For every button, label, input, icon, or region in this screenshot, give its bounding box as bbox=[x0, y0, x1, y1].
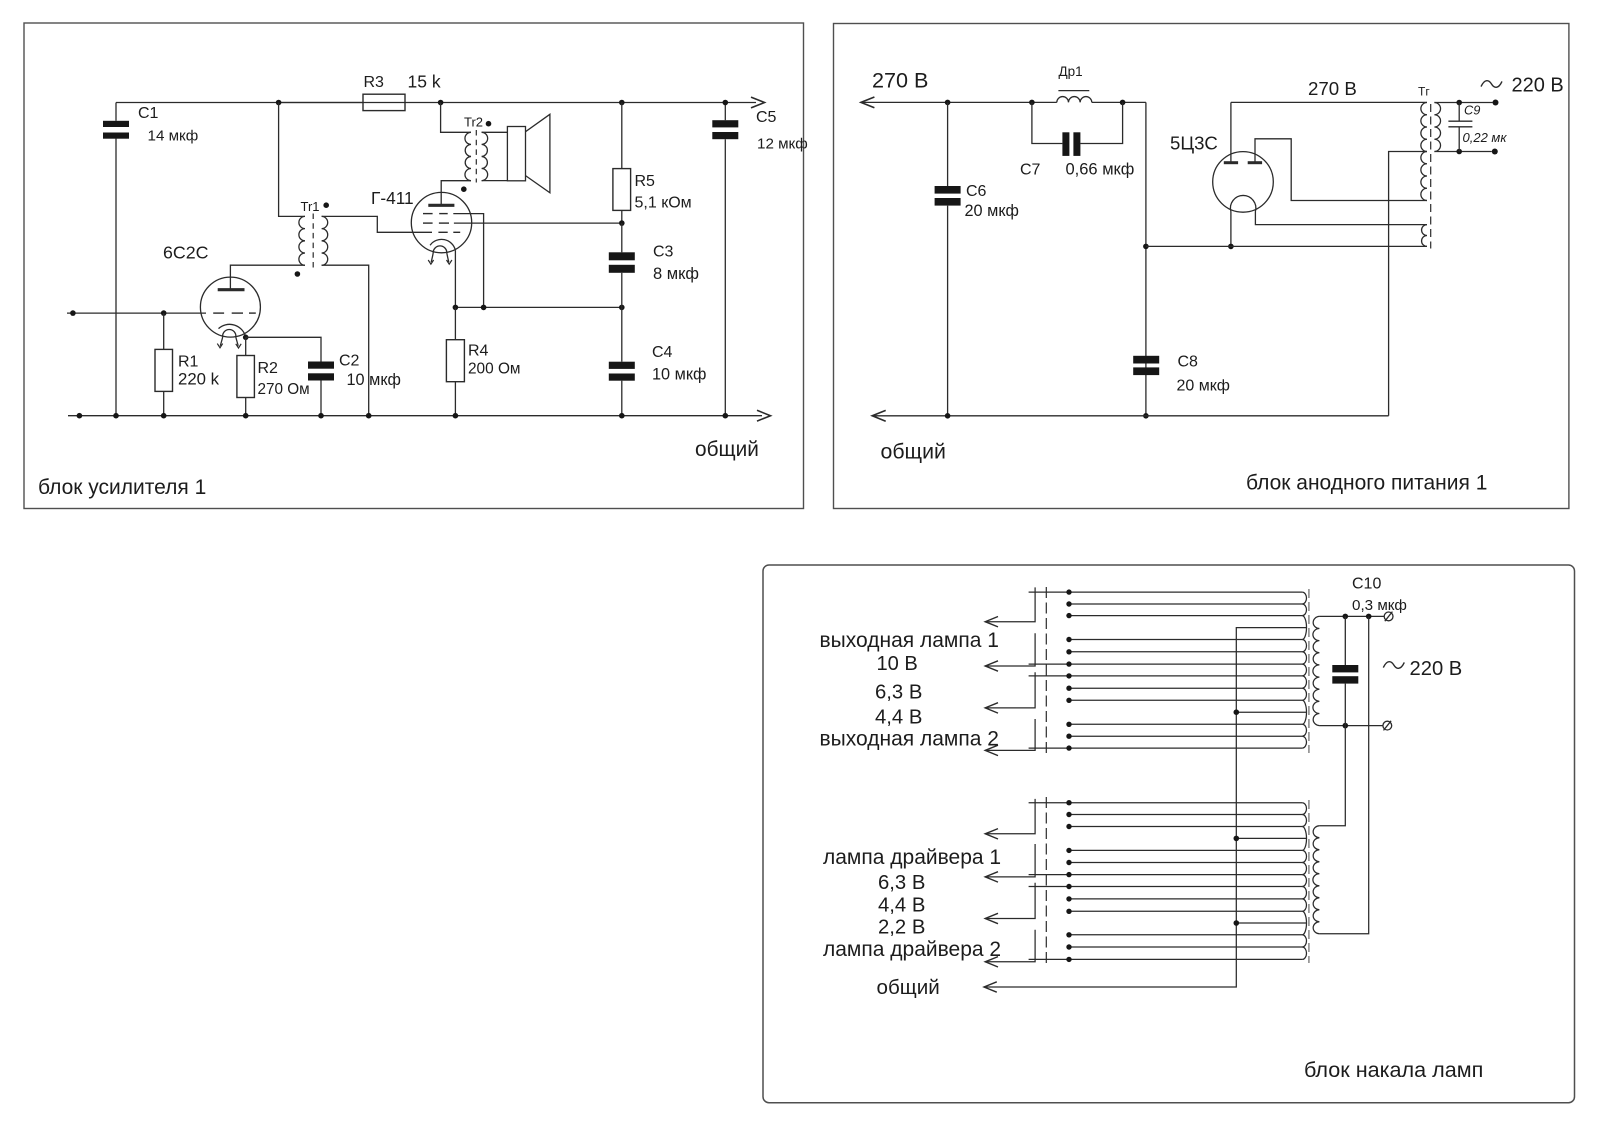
svg-text:C5: C5 bbox=[756, 109, 777, 126]
svg-text:220 В: 220 В bbox=[1410, 658, 1463, 680]
svg-text:200 Ом: 200 Ом bbox=[468, 361, 521, 378]
svg-text:R5: R5 bbox=[635, 173, 656, 190]
svg-text:4,4 В: 4,4 В bbox=[875, 707, 922, 729]
svg-text:C3: C3 bbox=[653, 244, 674, 261]
svg-text:10 В: 10 В bbox=[877, 653, 918, 675]
svg-text:C6: C6 bbox=[966, 183, 987, 200]
svg-text:C1: C1 bbox=[138, 105, 159, 122]
svg-text:14 мкф: 14 мкф bbox=[148, 128, 199, 145]
svg-text:2,2 В: 2,2 В bbox=[878, 917, 925, 939]
svg-text:Г-411: Г-411 bbox=[371, 188, 414, 208]
svg-text:270 В: 270 В bbox=[872, 68, 928, 93]
svg-text:общий: общий bbox=[877, 976, 940, 999]
svg-text:C9: C9 bbox=[1464, 103, 1480, 118]
svg-text:C10: C10 bbox=[1352, 576, 1381, 593]
svg-text:C4: C4 bbox=[652, 344, 673, 361]
svg-text:20 мкф: 20 мкф bbox=[1177, 378, 1230, 395]
svg-text:блок усилителя 1: блок усилителя 1 bbox=[38, 476, 206, 499]
svg-text:270 Ом: 270 Ом bbox=[258, 381, 310, 398]
svg-text:R4: R4 bbox=[468, 343, 489, 360]
svg-text:Др1: Др1 bbox=[1059, 64, 1083, 79]
svg-text:220 k: 220 k bbox=[178, 370, 220, 389]
svg-text:220 В: 220 В bbox=[1512, 75, 1564, 97]
svg-text:0,22 мк: 0,22 мк bbox=[1463, 130, 1508, 145]
svg-text:0,3 мкф: 0,3 мкф bbox=[1352, 597, 1407, 614]
svg-text:Tr1: Tr1 bbox=[301, 199, 320, 214]
svg-text:5Ц3С: 5Ц3С bbox=[1170, 133, 1218, 154]
svg-text:блок накала ламп: блок накала ламп bbox=[1304, 1057, 1483, 1082]
svg-text:6C2C: 6C2C bbox=[163, 243, 209, 263]
svg-text:10 мкф: 10 мкф bbox=[347, 371, 401, 389]
svg-text:0,66 мкф: 0,66 мкф bbox=[1066, 161, 1135, 179]
svg-text:15 k: 15 k bbox=[408, 72, 441, 92]
svg-text:4,4 В: 4,4 В bbox=[878, 895, 925, 917]
svg-text:Тг: Тг bbox=[1418, 85, 1430, 99]
svg-text:C7: C7 bbox=[1020, 162, 1041, 179]
svg-text:10 мкф: 10 мкф bbox=[652, 366, 706, 384]
svg-text:20 мкф: 20 мкф bbox=[965, 202, 1019, 220]
svg-text:6,3 В: 6,3 В bbox=[878, 872, 925, 894]
svg-text:R1: R1 bbox=[178, 354, 199, 371]
svg-text:R2: R2 bbox=[258, 360, 279, 377]
svg-text:12 мкф: 12 мкф bbox=[757, 136, 808, 153]
svg-text:лампа драйвера 1: лампа драйвера 1 bbox=[823, 846, 1001, 869]
svg-text:выходная лампа 1: выходная лампа 1 bbox=[820, 629, 999, 652]
svg-text:R3: R3 bbox=[364, 74, 385, 91]
svg-text:общий: общий bbox=[881, 440, 946, 464]
svg-text:блок анодного питания 1: блок анодного питания 1 bbox=[1246, 472, 1487, 495]
svg-text:общий: общий bbox=[695, 438, 759, 461]
svg-text:C2: C2 bbox=[339, 353, 360, 370]
svg-text:5,1 кОм: 5,1 кОм bbox=[635, 195, 692, 212]
svg-text:270 В: 270 В bbox=[1308, 78, 1357, 99]
svg-text:Tr2: Tr2 bbox=[464, 115, 483, 130]
svg-text:выходная лампа 2: выходная лампа 2 bbox=[820, 728, 999, 751]
svg-text:C8: C8 bbox=[1178, 354, 1199, 371]
svg-text:6,3 В: 6,3 В bbox=[875, 682, 922, 704]
svg-text:8 мкф: 8 мкф bbox=[653, 265, 699, 283]
svg-text:лампа драйвера 2: лампа драйвера 2 bbox=[823, 938, 1001, 961]
